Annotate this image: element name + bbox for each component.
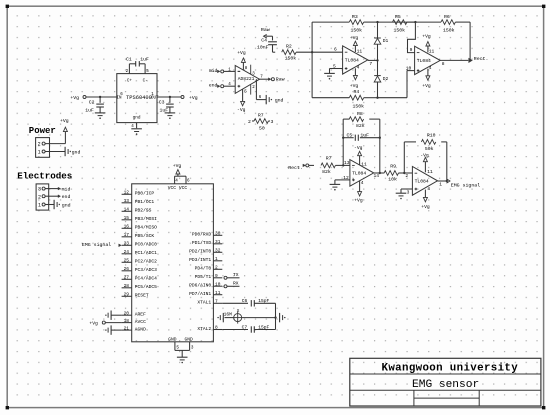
svg-text:end: end <box>209 83 218 89</box>
power -Vg at U3B pin 4 <box>422 69 431 90</box>
svg-text:30: 30 <box>215 231 221 237</box>
svg-text:Electrodes: Electrodes <box>17 170 72 181</box>
wire U2 REF pin 6 to gnd <box>256 79 266 100</box>
net Rect. output label <box>474 56 489 62</box>
net end at Electrodes pin 2 <box>45 194 70 200</box>
svg-text:PD4/T0: PD4/T0 <box>195 266 212 272</box>
net EMG signal into U4 pin 23 <box>82 242 121 248</box>
portal left of crystal X1 <box>217 313 223 322</box>
svg-text:GND: GND <box>185 337 194 343</box>
portal right of crystal X1 <box>280 313 286 322</box>
net +Vg left of U1 <box>70 95 116 101</box>
svg-text:TL084: TL084 <box>417 58 431 64</box>
power +Vg at U3C pin 4 <box>354 180 363 203</box>
svg-text:RESET: RESET <box>135 293 149 299</box>
wire rectifier input to U3A pin 6 <box>312 51 343 53</box>
svg-text:5: 5 <box>176 346 179 351</box>
net gnd at U2 pin 6 <box>266 95 283 104</box>
portal at U4 AREF pin 20 <box>105 311 121 320</box>
svg-text:XTAL1: XTAL1 <box>197 300 211 306</box>
wire pin9 jog from top wire <box>408 22 416 52</box>
wire C4 to R2 <box>273 51 276 53</box>
svg-text:TL084: TL084 <box>352 171 366 177</box>
svg-text:C6: C6 <box>242 298 248 304</box>
power +Vg at U4 VCC pins 4 and 6 <box>173 163 186 184</box>
svg-text:24: 24 <box>124 249 130 255</box>
svg-text:PD5/T1: PD5/T1 <box>195 274 212 280</box>
svg-text:AGND: AGND <box>135 326 146 332</box>
op-amp U2 AD8221 <box>228 65 259 95</box>
svg-text:PB1/OC1: PB1/OC1 <box>135 199 155 205</box>
svg-text:10k: 10k <box>388 176 397 182</box>
svg-text:mid: mid <box>209 68 218 74</box>
svg-text:3: 3 <box>407 189 410 195</box>
wire feedback right vertical <box>379 119 381 174</box>
net RX at U4 pin 10 <box>224 281 240 288</box>
svg-text:2: 2 <box>405 173 408 179</box>
net Rect. input label <box>288 164 309 171</box>
svg-text:RX: RX <box>233 281 239 287</box>
svg-text:82k: 82k <box>322 169 331 175</box>
svg-text:150k: 150k <box>353 103 365 109</box>
wire U2 output to Raw <box>260 75 272 80</box>
svg-text:14: 14 <box>374 173 380 179</box>
resistor R6 150k <box>441 14 455 34</box>
svg-text:D2: D2 <box>383 76 389 82</box>
svg-text:XTAL2: XTAL2 <box>197 326 211 332</box>
wire rectifier top left segment <box>312 21 349 23</box>
svg-text:PC5/ADC5: PC5/ADC5 <box>135 284 157 290</box>
svg-text:+Vg: +Vg <box>354 197 363 203</box>
svg-text:15: 15 <box>124 215 130 221</box>
svg-text:6: 6 <box>334 47 337 53</box>
resistor R5 150k <box>393 14 407 34</box>
resistor R7 82k <box>321 155 335 175</box>
svg-text:+Vg: +Vg <box>237 50 246 56</box>
wire feedback left vertical <box>342 119 344 165</box>
resistor R2 150k <box>282 44 297 62</box>
svg-text:+Vg: +Vg <box>350 83 359 89</box>
wire R8 top segment <box>343 118 380 120</box>
svg-text:Raw: Raw <box>276 77 285 83</box>
svg-text:D1: D1 <box>383 38 389 44</box>
wire U3B output to Rect <box>440 59 472 63</box>
svg-text:TPS60400: TPS60400 <box>126 95 152 101</box>
svg-text:11: 11 <box>427 169 433 175</box>
svg-text:PD3/INT1: PD3/INT1 <box>189 257 211 263</box>
svg-text:PB2/SS: PB2/SS <box>135 208 152 214</box>
IC U1 TPS60400 charge pump <box>116 66 159 129</box>
svg-text:29: 29 <box>124 292 130 298</box>
svg-text:PD2/INT0: PD2/INT0 <box>189 249 211 255</box>
crystal X1 16M <box>224 309 276 323</box>
svg-text:PC1/ADC1: PC1/ADC1 <box>135 250 157 256</box>
svg-text:3: 3 <box>191 346 194 351</box>
svg-text:16: 16 <box>124 224 130 230</box>
svg-text:end: end <box>62 194 71 200</box>
svg-text:4: 4 <box>429 65 432 71</box>
net TX at U4 pin 9 <box>224 272 240 279</box>
svg-text:C2: C2 <box>89 99 95 105</box>
svg-text:11: 11 <box>429 49 435 55</box>
wire bottom to U3B pin 10 vertical <box>378 71 415 98</box>
wire rectifier bottom left segment <box>312 97 349 99</box>
svg-text:2: 2 <box>215 265 218 271</box>
svg-text:R2: R2 <box>286 44 292 50</box>
power -Vg at U3D pin 11 <box>420 152 429 172</box>
svg-text:+Vg: +Vg <box>189 95 198 101</box>
svg-text:82k: 82k <box>356 123 365 129</box>
svg-text:TL084: TL084 <box>415 178 429 184</box>
title block <box>350 358 541 406</box>
wire U3D output to EMG signal <box>438 179 451 183</box>
svg-text:2: 2 <box>38 194 41 200</box>
svg-text:GND: GND <box>168 337 177 343</box>
wire R4 to D2 node <box>364 97 379 99</box>
wire Rect to R7 <box>309 164 314 166</box>
svg-text:10: 10 <box>406 66 412 72</box>
wire U3C output to R9 <box>374 172 385 174</box>
wire U3D pin 3 to ground <box>401 189 412 193</box>
capacitor C6 15pF <box>242 298 270 307</box>
svg-text:21: 21 <box>124 325 130 331</box>
power +Vg at U2 pin 8 <box>237 50 248 71</box>
wire R6 to right vertical corner <box>455 21 470 23</box>
svg-text:PC3/ADC3: PC3/ADC3 <box>135 267 157 273</box>
ground at U3D pin 3 <box>396 193 407 199</box>
svg-text:10nF: 10nF <box>257 44 269 50</box>
svg-text:gnd: gnd <box>133 115 141 120</box>
net +Vg right of U1 <box>157 95 198 101</box>
Power connector J1 <box>29 126 56 158</box>
wire rectifier left vertical <box>311 22 313 98</box>
wire R10 feedback left vertical <box>403 142 405 173</box>
capacitor C7 15pF <box>242 324 270 332</box>
net +Vg at Power pin 2 <box>45 118 69 144</box>
svg-text:28: 28 <box>124 283 130 289</box>
wire crystal right vertical <box>274 303 276 329</box>
svg-text:26: 26 <box>124 266 130 272</box>
power +Vg at U3D pin 4 <box>421 190 430 211</box>
svg-text:12: 12 <box>124 190 130 196</box>
wire R2 to rectifier input node <box>296 51 312 53</box>
wire XTAL1 to C6 <box>222 302 248 304</box>
capacitor C3 1uF with ground <box>159 97 175 119</box>
svg-text:C-: C- <box>143 80 148 84</box>
op-amp U3B TL084 <box>406 46 445 74</box>
svg-text:AREF: AREF <box>135 312 146 318</box>
svg-text:4: 4 <box>175 179 178 184</box>
svg-text:3: 3 <box>271 119 274 125</box>
diode D2 <box>374 60 389 97</box>
svg-text:11: 11 <box>215 290 221 296</box>
net EMG signal output label <box>451 183 480 189</box>
svg-text:Rect.: Rect. <box>288 165 303 171</box>
svg-text:PD6/AIN0: PD6/AIN0 <box>189 283 211 289</box>
wire R7 to U3C pin 13 <box>335 164 350 166</box>
svg-text:EMG sensor: EMG sensor <box>412 379 479 391</box>
svg-text:R10: R10 <box>427 132 436 138</box>
svg-text:+Vg: +Vg <box>70 95 79 101</box>
svg-text:C4: C4 <box>261 37 267 43</box>
svg-text:IN: IN <box>116 97 122 101</box>
svg-text:+Vg: +Vg <box>422 83 431 89</box>
svg-text:50: 50 <box>259 126 265 132</box>
svg-text:C7: C7 <box>242 324 248 330</box>
resistor R7 50 gain <box>248 112 274 131</box>
svg-text:PD7/AIN1: PD7/AIN1 <box>189 291 211 297</box>
ground at U3C pin 12 <box>330 184 341 190</box>
net end into U2 pin 4 <box>209 83 236 89</box>
svg-text:gnd: gnd <box>275 97 284 103</box>
svg-text:PB4/MISO: PB4/MISO <box>135 225 157 231</box>
portal at U4 AGND pin 21 <box>105 325 121 334</box>
svg-text:11: 11 <box>357 48 363 54</box>
svg-text:1uF: 1uF <box>85 107 94 113</box>
wire C6 to right vertical <box>254 302 275 304</box>
svg-text:14: 14 <box>124 207 130 213</box>
svg-text:Rect.: Rect. <box>474 56 489 62</box>
svg-text:2: 2 <box>38 142 41 148</box>
op-amp U3D TL084 <box>405 167 442 196</box>
capacitor C2 1uF with ground <box>85 97 105 119</box>
net gnd at Electrodes pin 1 <box>45 200 71 209</box>
svg-text:8: 8 <box>215 325 218 331</box>
wire XTAL2 to C7 <box>222 329 248 331</box>
wire rectifier right vertical <box>469 22 471 62</box>
svg-text:+Vg: +Vg <box>421 204 430 210</box>
Electrodes connector J2 <box>17 170 72 210</box>
svg-text:11: 11 <box>361 162 367 168</box>
svg-text:13: 13 <box>344 160 350 166</box>
op-amp U3C TL084 <box>343 160 379 187</box>
svg-text:PC0/ADC0: PC0/ADC0 <box>135 242 157 248</box>
op-amp U3A TL084 <box>333 46 372 74</box>
svg-text:TX: TX <box>233 272 239 278</box>
svg-text:PC2/ADC2: PC2/ADC2 <box>135 259 157 265</box>
wire R10 top segment <box>404 141 447 143</box>
svg-text:23: 23 <box>124 241 130 247</box>
svg-text:1: 1 <box>439 181 442 187</box>
svg-text:150k: 150k <box>351 28 363 34</box>
svg-text:EMG signal: EMG signal <box>451 183 480 189</box>
svg-text:mid: mid <box>62 186 71 192</box>
svg-text:C1: C1 <box>126 57 132 63</box>
wire R9 to U3D pin 2 <box>399 172 413 174</box>
resistor R8 82k <box>349 111 365 129</box>
net +Vg at U4 AVCC pin 18 <box>89 320 121 326</box>
net mid at Electrodes pin 3 <box>45 186 70 192</box>
net gnd at Power pin 1 <box>45 147 80 156</box>
svg-text:+Vg: +Vg <box>60 118 69 124</box>
svg-text:1uF: 1uF <box>360 132 369 138</box>
svg-text:8: 8 <box>442 61 445 67</box>
svg-text:C3: C3 <box>159 100 165 106</box>
svg-text:2: 2 <box>248 119 251 125</box>
svg-text:C5: C5 <box>347 132 353 138</box>
power -Vg at U3A pin 4 <box>350 68 359 89</box>
ground at U4 GND pins 5 and 3 <box>175 342 194 364</box>
svg-text:27: 27 <box>124 275 130 281</box>
svg-text:4: 4 <box>357 65 360 71</box>
svg-text:Kwangwoon university: Kwangwoon university <box>382 362 519 374</box>
wire U3A pin 5 to ground <box>330 69 343 74</box>
svg-text:R9: R9 <box>390 164 396 170</box>
svg-text:AD8221: AD8221 <box>238 76 255 82</box>
svg-text:13: 13 <box>124 198 130 204</box>
svg-text:50k: 50k <box>425 146 434 152</box>
svg-text:+Vg: +Vg <box>350 35 359 41</box>
svg-text:25: 25 <box>124 258 130 264</box>
power -Vg at U3C pin 11 <box>354 145 363 165</box>
svg-text:C+: C+ <box>127 80 133 84</box>
svg-text:-Vg: -Vg <box>420 152 429 158</box>
svg-text:PD1/TXD: PD1/TXD <box>192 240 212 246</box>
svg-text:20: 20 <box>124 310 130 316</box>
capacitor C4 10nF <box>257 36 277 52</box>
svg-text:32: 32 <box>215 248 221 254</box>
wire R3 to D1 node <box>364 21 379 23</box>
resistor R9 10k <box>384 164 398 183</box>
svg-text:EMG signal: EMG signal <box>82 242 111 248</box>
svg-text:1: 1 <box>215 256 218 262</box>
net Raw at U2 output <box>271 77 284 83</box>
svg-text:16M: 16M <box>224 311 233 317</box>
svg-text:X: X <box>237 309 240 314</box>
svg-text:18: 18 <box>124 318 130 324</box>
resistor R10 50k <box>421 132 435 152</box>
svg-text:31: 31 <box>215 239 221 245</box>
svg-text:-Vg: -Vg <box>354 145 363 151</box>
svg-text:gnd: gnd <box>72 149 81 155</box>
svg-text:Raw: Raw <box>261 27 270 33</box>
net Raw label above C4 <box>261 27 273 38</box>
svg-text:TL084: TL084 <box>345 58 359 64</box>
ground under U1 pin 4 <box>131 129 142 135</box>
svg-text:+Vg: +Vg <box>89 320 98 326</box>
net mid into U2 pin 1 <box>209 68 236 74</box>
svg-text:6: 6 <box>187 179 190 184</box>
svg-text:R4: R4 <box>354 89 360 95</box>
svg-text:+Vg: +Vg <box>422 34 431 40</box>
svg-text:9: 9 <box>215 273 218 279</box>
svg-text:R3: R3 <box>352 14 358 20</box>
svg-text:AVCC: AVCC <box>135 319 146 325</box>
svg-text:1: 1 <box>38 203 41 209</box>
svg-text:VCC VCC: VCC VCC <box>168 185 188 191</box>
svg-text:17: 17 <box>124 232 130 238</box>
svg-text:PB5/SCK: PB5/SCK <box>135 233 155 239</box>
svg-text:4: 4 <box>361 180 364 186</box>
svg-text:R5: R5 <box>395 14 401 20</box>
wire D1 node to pin9 tap <box>378 21 417 23</box>
power -Vg at U2 pin 5 <box>237 89 247 113</box>
svg-text:PD0/RXD: PD0/RXD <box>192 232 212 238</box>
svg-text:3: 3 <box>38 187 41 193</box>
wire R10 feedback right vertical <box>446 142 448 182</box>
svg-text:9: 9 <box>410 47 413 53</box>
capacitor C1 1uF <box>126 57 149 67</box>
capacitor C5 1uF <box>343 132 380 141</box>
svg-text:7: 7 <box>369 61 372 67</box>
svg-text:7: 7 <box>215 299 218 305</box>
IC U4 ATmega8 microcontroller <box>122 179 223 343</box>
svg-text:Power: Power <box>29 126 56 136</box>
diode D1 <box>374 22 389 60</box>
svg-text:150k: 150k <box>285 56 297 62</box>
power +Vg at U3B pin 11 <box>422 34 431 53</box>
svg-text:PB3/MOSI: PB3/MOSI <box>135 216 157 222</box>
svg-text:150k: 150k <box>443 28 455 34</box>
svg-text:R7: R7 <box>258 112 264 118</box>
wire R5 area top segment <box>407 21 441 23</box>
svg-text:150k: 150k <box>394 28 406 34</box>
svg-text:gnd: gnd <box>62 202 71 208</box>
svg-text:1uF: 1uF <box>140 57 149 63</box>
svg-text:1: 1 <box>38 150 41 156</box>
svg-text:R7: R7 <box>326 155 332 161</box>
resistor R4 150k <box>349 89 364 109</box>
svg-text:4: 4 <box>427 186 430 192</box>
svg-text:PC4/ADC4: PC4/ADC4 <box>135 276 157 282</box>
svg-text:-Vg: -Vg <box>237 107 246 113</box>
wire U3C pin 12 to ground <box>335 180 350 184</box>
resistor R3 150k <box>349 14 363 34</box>
svg-text:10: 10 <box>215 281 221 287</box>
svg-text:PB0/ICP: PB0/ICP <box>135 191 155 197</box>
power +Vg at U3A pin 11 <box>350 35 359 52</box>
wire U3A output to diode node <box>368 59 379 61</box>
ground at U3A pin 5 <box>324 73 335 79</box>
wire C7 to right vertical <box>254 329 275 331</box>
svg-text:+Vg: +Vg <box>173 163 182 169</box>
